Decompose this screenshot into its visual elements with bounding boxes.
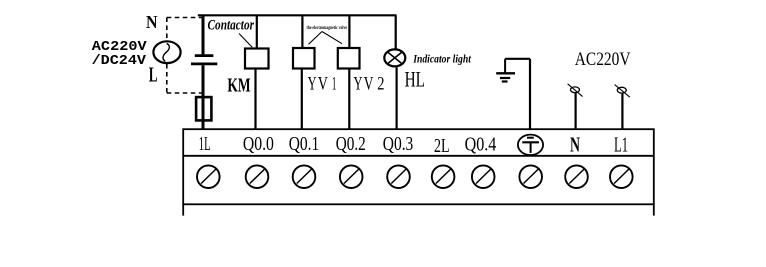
screw terminal Q0.1 [293, 165, 316, 188]
terminal strip divider [183, 155, 654, 157]
dashed source box bottom [167, 92, 202, 94]
earth terminal bar [522, 141, 539, 143]
solenoid valve YV2 [338, 48, 360, 69]
svg-text:2: 2 [377, 74, 384, 95]
earth terminal circle [518, 135, 543, 155]
wire: ground horizontal [505, 58, 530, 60]
svg-text:Q0.4: Q0.4 [465, 134, 497, 155]
svg-text:the electromagnetic valve: the electromagnetic valve [307, 25, 348, 31]
screw terminal Q0.0 [246, 165, 269, 188]
solenoid valve YV1 [293, 48, 315, 69]
svg-text:L: L [149, 63, 158, 87]
svg-text:Q0.2: Q0.2 [336, 134, 366, 155]
capacitor top plate [195, 54, 214, 57]
svg-text:Indicator light: Indicator light [412, 53, 471, 65]
capacitor bottom plate [191, 63, 217, 66]
svg-text:Contactor: Contactor [208, 18, 255, 34]
lamp X stroke 1 [387, 52, 402, 64]
leader line left to YV1 [309, 32, 323, 45]
ground symbol stem [504, 59, 506, 74]
AC source sine squiggle [163, 43, 169, 61]
wire: YV2 drop lower [348, 69, 350, 130]
leader line Contactor [239, 34, 252, 48]
dashed source box top [167, 17, 204, 19]
wire: HL drop upper [395, 15, 397, 50]
svg-text:Y: Y [308, 74, 317, 95]
svg-text:KM: KM [227, 75, 250, 97]
wire: YV2 drop upper [348, 15, 350, 48]
wire: 1L vertical drop [202, 15, 205, 54]
svg-text:2L: 2L [434, 136, 450, 157]
svg-text:N: N [570, 133, 580, 157]
label YV1 [308, 74, 337, 95]
screw terminal Q0.2 [340, 165, 363, 188]
wire: HL drop lower [396, 67, 398, 129]
wire: 1L vertical drop lower [202, 65, 205, 129]
screw terminal earth [519, 165, 542, 188]
earth terminal top dash [527, 137, 534, 139]
svg-text:HL: HL [405, 67, 425, 92]
svg-text:1: 1 [332, 74, 337, 95]
dashed source box left upper [166, 18, 168, 41]
svg-text:Y: Y [354, 74, 363, 95]
contactor coil KM [245, 49, 269, 69]
wire: KM drop upper [256, 15, 258, 48]
leader line right to YV2 [322, 32, 342, 44]
indicator lamp HL [384, 49, 405, 66]
svg-text:V: V [318, 74, 328, 95]
svg-text:AC220V: AC220V [575, 49, 631, 70]
wire: top supply bus [198, 14, 397, 16]
svg-text:N: N [146, 12, 158, 32]
screw terminal L1 [610, 165, 633, 188]
wire: KM drop lower [254, 69, 256, 130]
wire: YV1 drop lower [301, 69, 303, 130]
svg-text:Q0.3: Q0.3 [383, 134, 414, 155]
connection slash N [568, 84, 583, 97]
lamp X stroke 2 [387, 52, 402, 64]
svg-text:AC220V: AC220V [92, 40, 148, 55]
connection point L1 (circle) [617, 87, 626, 93]
screw terminal 1L [197, 165, 220, 188]
dashed source box left lower [166, 64, 168, 93]
label YV2 [354, 74, 385, 95]
AC source circle [153, 41, 180, 63]
ground bar 2 [500, 77, 510, 79]
fuse FU [196, 97, 211, 120]
terminal strip outline [183, 129, 654, 204]
wire: L1 drop [621, 93, 623, 130]
wire: earth terminal drop [529, 59, 531, 130]
svg-text:L1: L1 [614, 133, 628, 157]
connection point N (circle) [571, 87, 580, 93]
earth terminal stem [530, 142, 532, 153]
svg-text:/DC24V: /DC24V [92, 54, 147, 69]
screw terminal Q0.4 [472, 165, 495, 188]
svg-text:V: V [364, 74, 374, 95]
svg-text:Q0.1: Q0.1 [289, 134, 320, 155]
wire: YV1 drop upper [301, 15, 303, 48]
svg-text:1L: 1L [199, 134, 211, 155]
ground bar 1 [496, 72, 515, 74]
PLC body right edge [653, 204, 655, 215]
connection slash L1 [615, 85, 630, 98]
ground bar 3 [502, 80, 508, 82]
wire: N drop [574, 93, 576, 130]
PLC body left edge [182, 204, 184, 215]
screw terminal N [565, 165, 588, 188]
screw terminal 2L [432, 165, 455, 188]
screw terminal Q0.3 [387, 165, 410, 188]
svg-text:Q0.0: Q0.0 [243, 134, 274, 155]
